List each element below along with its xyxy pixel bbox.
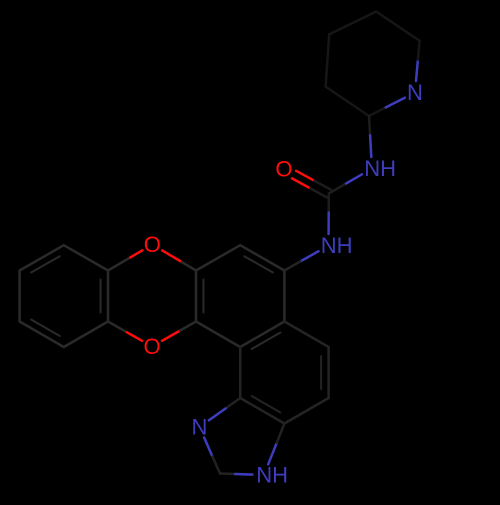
svg-text:NH: NH [364, 156, 396, 181]
svg-text:NH: NH [321, 233, 353, 258]
wire: left benzene ring bond B2-B3 (double) [20, 245, 64, 270]
svg-text:O: O [143, 334, 160, 359]
wire: central benzene ring bond A1-A2 [196, 245, 240, 270]
wire: left benzene ring bond B5-B6 [64, 322, 108, 348]
svg-text:O: O [275, 157, 292, 182]
wire: central benzene ring bond A4-A5 (double) [240, 322, 284, 348]
wire: top-right ring bond N1-C6 [416, 60, 418, 81]
wire: bond urea NH to carbonyl C [344, 174, 362, 184]
wire: lower-right ring bond Y3-Y4 (double) [240, 398, 284, 424]
wire: imidazole bond C2-N1H [220, 472, 235, 475]
wire: left benzene ring bond B1-B2 [64, 245, 108, 270]
wire: top-right ring bond C5-C4 [329, 12, 376, 35]
wire: imidazole bond Y4-N3 [226, 398, 241, 409]
wire: top-right ring bond C4-C3 [326, 34, 330, 86]
wire: lower-right ring bond Y1-Y2 (double) [327, 347, 330, 398]
wire: top-right ring bond C3-C2 [326, 87, 369, 116]
wire: top-right ring bond C6-C5 [376, 12, 419, 41]
wire: dioxine bond O bottom-A6 [162, 331, 180, 341]
wire: top-right ring bond C2-N1 [369, 107, 386, 116]
svg-text:O: O [144, 232, 161, 257]
wire: bond lower urea NH to aryl carbon A3 [300, 251, 318, 261]
svg-text:N: N [407, 80, 423, 105]
wire: imidazole bond N1H-Y3 [268, 443, 277, 465]
wire: dioxine bond A1-O top [180, 261, 196, 271]
svg-text:NH: NH [256, 463, 288, 488]
wire: dioxine bond O top-B1 [129, 250, 143, 258]
wire: left benzene ring bond B4-B5 (double) [20, 322, 64, 348]
wire: central benzene ring bond A5-A6 [196, 322, 240, 348]
wire: central benzene ring bond A2-A3 (double) [240, 245, 284, 270]
wire: bond C2 to urea NH [369, 116, 370, 135]
wire: bond carbonyl C to lower urea NH [327, 194, 330, 213]
svg-text:N: N [192, 415, 208, 440]
wire: left benzene ring bond B6-B1 (double) [107, 271, 110, 322]
wire: lower-right ring bond Y4-A5 [239, 347, 242, 398]
wire: imidazole bond N3-C2 [204, 438, 212, 457]
wire: carbonyl C=O double bond [292, 178, 310, 188]
wire: left benzene ring bond B3-B4 [18, 271, 21, 322]
wire: central benzene ring bond A3-A4 [283, 271, 286, 322]
wire: dioxine bond B6-O bottom [108, 322, 127, 333]
wire: lower-right ring bond A4-Y1 [284, 322, 328, 348]
wire: central benzene ring bond A6-A1 (double) [195, 271, 198, 322]
wire: lower-right ring bond Y2-Y3 [284, 398, 328, 424]
